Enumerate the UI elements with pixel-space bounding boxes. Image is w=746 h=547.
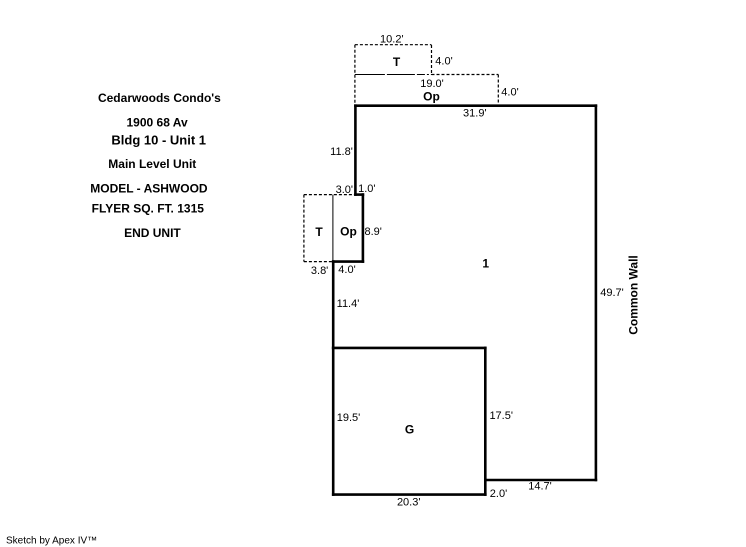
svg-text:17.5': 17.5' (489, 410, 513, 422)
svg-text:T: T (315, 225, 323, 239)
svg-text:11.4': 11.4' (337, 298, 360, 310)
svg-text:11.8': 11.8' (330, 146, 353, 158)
svg-text:10.2': 10.2' (380, 33, 404, 45)
svg-text:Op: Op (340, 224, 357, 238)
svg-text:G: G (405, 423, 414, 437)
svg-text:Cedarwoods Condo's: Cedarwoods Condo's (98, 91, 221, 105)
svg-text:END UNIT: END UNIT (124, 226, 181, 240)
svg-text:FLYER SQ. FT. 1315: FLYER SQ. FT. 1315 (92, 202, 205, 216)
svg-text:Sketch by Apex IV™: Sketch by Apex IV™ (6, 536, 97, 547)
svg-text:1.0': 1.0' (358, 183, 375, 195)
svg-text:Main Level Unit: Main Level Unit (108, 157, 196, 171)
svg-text:19.5': 19.5' (337, 412, 361, 424)
svg-text:3.0': 3.0' (336, 184, 353, 196)
svg-text:14.7': 14.7' (528, 481, 552, 493)
svg-text:Op: Op (423, 90, 440, 104)
svg-text:3.8': 3.8' (311, 265, 328, 277)
svg-text:19.0': 19.0' (420, 78, 444, 90)
svg-text:1: 1 (482, 256, 489, 270)
svg-text:T: T (393, 55, 401, 69)
svg-text:MODEL - ASHWOOD: MODEL - ASHWOOD (90, 182, 208, 196)
svg-text:20.3': 20.3' (397, 497, 421, 509)
svg-text:4.0': 4.0' (435, 56, 452, 68)
svg-text:4.0': 4.0' (338, 264, 355, 276)
svg-text:8.9': 8.9' (364, 226, 381, 238)
svg-text:2.0': 2.0' (490, 488, 507, 500)
svg-text:4.0': 4.0' (501, 87, 518, 99)
svg-text:49.7': 49.7' (600, 287, 624, 299)
svg-text:Common Wall: Common Wall (626, 255, 640, 335)
svg-text:31.9': 31.9' (463, 108, 487, 120)
svg-text:Bldg 10 - Unit 1: Bldg 10 - Unit 1 (111, 133, 206, 148)
svg-text:1900 68 Av: 1900 68 Av (127, 115, 188, 129)
